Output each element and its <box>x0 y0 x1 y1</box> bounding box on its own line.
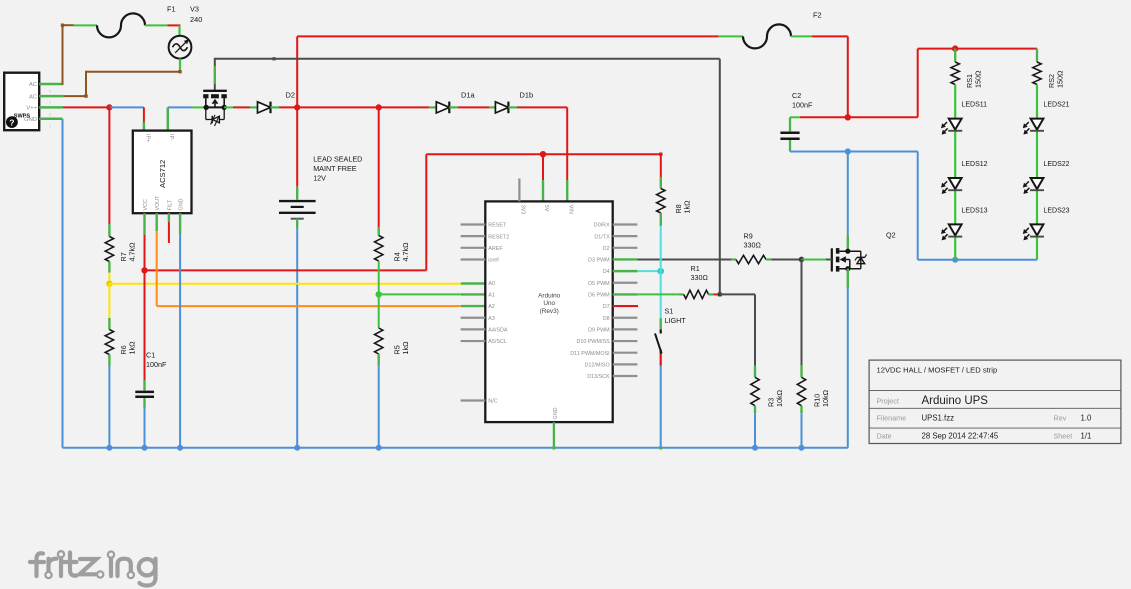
pin SWPS AC1 leg <box>39 83 62 86</box>
svg-text:4.7kΩ: 4.7kΩ <box>127 242 136 262</box>
svg-text:IP+: IP+ <box>145 134 151 142</box>
svg-text:UPS1.fzz: UPS1.fzz <box>922 414 955 423</box>
node RS1 top <box>952 45 958 51</box>
fritzing logo <box>30 551 156 585</box>
wire D4 cyan <box>637 270 660 272</box>
resistor R3 10k <box>751 377 784 407</box>
node bus C1 <box>142 445 148 451</box>
wire R7 to A0 node (yellow) <box>108 262 110 284</box>
svg-text:330Ω: 330Ω <box>691 273 709 282</box>
svg-text:3V3: 3V3 <box>520 205 526 215</box>
svg-text:D12/MISO: D12/MISO <box>585 362 610 368</box>
wire C1 to ground bus <box>143 398 145 448</box>
wire Q1 gate (gray) <box>215 57 720 294</box>
svg-text:?: ? <box>9 117 14 127</box>
svg-text:R1: R1 <box>691 264 700 273</box>
node bus ACS GND <box>177 445 183 451</box>
battery LEAD SEALED 12V <box>279 155 362 219</box>
svg-text:A1: A1 <box>488 293 495 299</box>
LED LEDS13 <box>941 208 988 241</box>
node bus battery <box>294 445 300 451</box>
svg-text:GND: GND <box>179 198 185 210</box>
unconnected right pins <box>613 225 638 377</box>
wire R8 bottom leg <box>660 213 662 226</box>
wire node to D1a <box>379 106 437 108</box>
wire Q1 to D2 <box>224 106 257 108</box>
svg-text:Filename: Filename <box>877 414 907 423</box>
svg-text:C1: C1 <box>146 351 155 360</box>
svg-text:Project: Project <box>877 396 899 405</box>
wire SWPS GND leg <box>39 118 62 121</box>
resistor R4 4.7k <box>375 236 410 262</box>
wire R9 to Q2 gate <box>766 258 802 260</box>
wire D6 to R1 (green) <box>637 293 683 295</box>
wire V3 bottom to AC2 (brown) <box>64 59 182 98</box>
svg-text:D11 PWM/MOSI: D11 PWM/MOSI <box>570 351 609 357</box>
wire top rail to fuse F2 (red) <box>297 36 743 107</box>
node Q2 gate / R10 <box>799 257 805 263</box>
svg-text:28 Sep 2014 22:47:45: 28 Sep 2014 22:47:45 <box>922 431 999 440</box>
wire S1 to bus <box>660 354 662 448</box>
wire R5 to ground bus <box>378 354 380 448</box>
wire LED return rail <box>918 152 1037 260</box>
node A1 divider <box>376 291 382 297</box>
pin D7 red stub <box>613 305 638 307</box>
svg-text:Arduino: Arduino <box>538 293 560 300</box>
node LED return / Q2 drain <box>845 148 851 154</box>
svg-text:MAINT FREE: MAINT FREE <box>313 164 357 173</box>
svg-text:D0/RX: D0/RX <box>594 223 610 229</box>
svg-text:LEAD SEALED: LEAD SEALED <box>313 155 362 164</box>
svg-text:1.0: 1.0 <box>1081 414 1093 423</box>
wire node to R6 <box>108 284 110 330</box>
wire Q2 drain <box>847 152 849 252</box>
node bus R10 <box>799 445 805 451</box>
svg-text:A2: A2 <box>488 304 495 310</box>
pin D6 PWM leg <box>613 293 638 295</box>
power supply SWPS (unknown part) <box>4 73 52 131</box>
diode D1a <box>436 91 475 114</box>
svg-text:LEDS22: LEDS22 <box>1044 161 1070 168</box>
svg-text:D9 PWM: D9 PWM <box>588 327 610 333</box>
capacitor C2 100nF <box>780 91 813 139</box>
wire R10 to bus <box>800 406 802 448</box>
svg-text:A0: A0 <box>488 281 495 287</box>
svg-text:RESET: RESET <box>488 223 507 229</box>
svg-text:330Ω: 330Ω <box>744 241 762 250</box>
svg-text:10kΩ: 10kΩ <box>821 389 830 407</box>
wire VCC net to 5V and R8 (red) <box>145 153 663 271</box>
svg-text:N/C: N/C <box>488 399 497 405</box>
svg-text:AC: AC <box>29 94 37 100</box>
LED LEDS21 <box>1023 85 1070 260</box>
node battery top rail <box>294 104 300 110</box>
svg-text:R9: R9 <box>744 231 753 240</box>
wire Q2 source to bus <box>847 269 849 448</box>
svg-text:GND: GND <box>553 407 559 419</box>
svg-text:100nF: 100nF <box>792 101 813 110</box>
svg-text:1kΩ: 1kΩ <box>682 200 691 214</box>
svg-text:4.7kΩ: 4.7kΩ <box>401 242 410 262</box>
svg-text:1kΩ: 1kΩ <box>401 341 410 355</box>
svg-text:V3: V3 <box>190 5 199 14</box>
svg-text:F1: F1 <box>167 5 176 14</box>
wire R1 to gate node (red) <box>709 293 720 295</box>
wire rail node down to R4 <box>378 107 380 235</box>
svg-text:D13/SCK: D13/SCK <box>587 374 610 380</box>
wire R8 top (red) <box>660 154 662 188</box>
svg-text:Arduino UPS: Arduino UPS <box>922 395 989 407</box>
wire C2 bottom to LED return (blue) <box>790 140 918 152</box>
wire R4 to A1 node (green) <box>378 261 380 328</box>
svg-text:AC: AC <box>29 82 37 88</box>
wire R3 to bus <box>754 406 756 448</box>
svg-text:D4: D4 <box>603 269 610 275</box>
svg-text:AREF: AREF <box>488 246 503 252</box>
LED LEDS12 <box>941 161 988 194</box>
node LED supply rail <box>845 114 851 120</box>
resistor R6 1k <box>105 330 136 355</box>
LED LEDS22 <box>1023 161 1070 194</box>
pin ACS712 FILT stub <box>168 213 170 243</box>
svg-text:ACS712: ACS712 <box>158 160 167 188</box>
svg-text:LEDS23: LEDS23 <box>1044 208 1070 215</box>
svg-text:5V: 5V <box>543 205 549 212</box>
wire VCC to C1 <box>144 270 146 390</box>
title block <box>869 360 1121 443</box>
resistor R9 330 <box>736 231 766 263</box>
pin ACS712 VOUT to A2 (orange) <box>157 213 486 306</box>
svg-text:LEDS21: LEDS21 <box>1044 102 1070 109</box>
IC ACS712 current sensor <box>133 131 192 214</box>
node bus R6 <box>106 445 112 451</box>
wire ground bus <box>63 119 848 448</box>
pin ACS712 VCC leg <box>143 213 145 234</box>
LED LEDS23 <box>1023 208 1070 241</box>
LED LEDS11 <box>941 85 987 260</box>
svg-text:D5 PWM: D5 PWM <box>588 281 610 287</box>
node VCC net <box>141 267 147 273</box>
resistor R10 10k <box>797 377 830 407</box>
svg-text:V++: V++ <box>26 106 37 112</box>
svg-text:1kΩ: 1kΩ <box>127 341 136 355</box>
resistor R5 1k <box>375 328 410 355</box>
svg-text:12VDC HALL / MOSFET / LED stri: 12VDC HALL / MOSFET / LED strip <box>877 366 998 375</box>
node Q1 gate / R3 <box>718 292 722 296</box>
svg-text:D7: D7 <box>603 304 610 310</box>
wire node to R3 <box>720 294 755 377</box>
resistor R1 330 <box>684 264 709 299</box>
svg-text:LEDS11: LEDS11 <box>962 102 988 109</box>
svg-text:D2: D2 <box>286 91 295 100</box>
pin SWPS V++ leg <box>39 106 63 109</box>
resistor RS2 150 <box>1033 49 1065 88</box>
resistor R7 4.7k <box>105 237 136 262</box>
svg-text:LEDS13: LEDS13 <box>962 208 988 215</box>
unconnected left pins <box>461 225 486 401</box>
svg-text:150Ω: 150Ω <box>974 70 983 88</box>
node Q1 drain <box>204 105 209 110</box>
node R4 top <box>376 104 382 110</box>
wire VCC red down <box>144 235 146 271</box>
wire D2 cathode to node <box>271 106 297 108</box>
pin SWPS AC2 leg <box>39 95 64 98</box>
svg-text:10kΩ: 10kΩ <box>775 389 784 407</box>
node bus R3 <box>752 445 758 451</box>
wire LED supply rail riser <box>918 49 1037 118</box>
svg-text:A3: A3 <box>488 316 495 322</box>
pin GND leg to bus <box>553 422 555 448</box>
svg-text:VCC: VCC <box>143 199 149 210</box>
pin ACS712 GND to bus <box>179 213 181 448</box>
svg-text:A4/SDA: A4/SDA <box>488 327 508 333</box>
svg-text:Rev: Rev <box>1054 414 1067 423</box>
svg-text:D10 PWM/SS: D10 PWM/SS <box>576 339 610 345</box>
svg-text:RESET2: RESET2 <box>488 234 509 240</box>
svg-text:D1a: D1a <box>461 91 475 100</box>
svg-text:D1/TX: D1/TX <box>594 234 610 240</box>
resistor RS1 150 <box>951 49 983 88</box>
svg-text:C2: C2 <box>792 91 801 100</box>
wire rail to R4 node <box>297 106 379 108</box>
svg-text:150Ω: 150Ω <box>1055 70 1064 88</box>
wire D1b to VIN <box>508 107 567 201</box>
capacitor C1 100nF <box>135 351 167 397</box>
wire battery to ground bus <box>296 219 298 448</box>
svg-text:VOUT: VOUT <box>155 195 161 211</box>
node bus S1 tick <box>659 446 663 450</box>
node LED1 column bottom <box>952 257 958 263</box>
wire F2 to LED rail <box>791 36 848 117</box>
wire A1 green <box>379 293 486 295</box>
svg-text:ioref: ioref <box>488 258 499 264</box>
svg-text:IP-: IP- <box>168 134 174 141</box>
svg-text:D1b: D1b <box>520 91 534 100</box>
node D4 / S1 / R8 <box>657 268 664 275</box>
svg-text:Sheet: Sheet <box>1054 431 1073 440</box>
svg-text:1/1: 1/1 <box>1081 431 1092 440</box>
node V++ / R7 <box>106 104 112 110</box>
pin D3 PWM leg <box>613 258 638 260</box>
IC U1 Arduino Uno (Rev3) <box>485 201 612 422</box>
pin 3V3 stub <box>518 179 520 202</box>
svg-text:F2: F2 <box>813 11 822 20</box>
wire yellow to Arduino A0 <box>109 283 485 285</box>
switch S1 LIGHT <box>655 307 686 354</box>
svg-text:A5/SCL: A5/SCL <box>488 339 507 345</box>
svg-text:Q2: Q2 <box>886 231 896 240</box>
transistor Q2 N-MOSFET <box>826 231 896 272</box>
node bus Arduino GND tick <box>552 446 556 450</box>
wire C2 top to rail <box>790 117 918 131</box>
wire D1a to D1b <box>449 106 495 108</box>
svg-text:FILT: FILT <box>167 199 173 210</box>
wire V++ to ACS712 IP+ (blue) <box>109 106 143 108</box>
resistor R8 1k <box>657 189 692 214</box>
wire cyan R8 to S1 <box>660 226 662 318</box>
svg-text:D8: D8 <box>603 316 610 322</box>
AC source V3 240 <box>169 5 203 59</box>
diode D1b <box>495 91 533 114</box>
svg-text:S1: S1 <box>665 307 674 316</box>
pin D4 leg <box>613 270 638 272</box>
fuse F1 <box>97 5 176 38</box>
svg-text:D2: D2 <box>603 246 610 252</box>
wire D3 to R9 (gray) <box>637 258 736 260</box>
svg-text:Uno: Uno <box>543 300 555 307</box>
node Q1 source <box>222 105 227 110</box>
svg-text:D6 PWM: D6 PWM <box>588 293 610 299</box>
svg-text:Date: Date <box>877 431 892 440</box>
wire V++ red <box>63 106 109 108</box>
wire V++ node down to R7 <box>108 107 110 236</box>
svg-text:(Rev3): (Rev3) <box>540 308 559 315</box>
wire F1 to V3 <box>145 25 181 35</box>
transistor Q1 P-MOSFET <box>203 58 227 126</box>
wire ACS712 IP- to MOSFET Q1 (blue) <box>168 107 206 130</box>
wire to fuse F1 (green) <box>74 24 98 26</box>
svg-text:12V: 12V <box>313 174 326 183</box>
wire rail to battery <box>296 107 298 199</box>
wire R6 to ground bus <box>108 355 110 448</box>
svg-text:100nF: 100nF <box>146 360 167 369</box>
diode D2 <box>258 91 295 114</box>
node 5V tap <box>540 151 546 201</box>
svg-text:LIGHT: LIGHT <box>665 316 687 325</box>
svg-text:LEDS12: LEDS12 <box>962 161 988 168</box>
wire AC1 brown <box>61 24 74 86</box>
wire IP+ drop <box>143 107 145 130</box>
svg-text:240: 240 <box>190 15 202 24</box>
wire node to R10 <box>801 259 803 377</box>
fuse F2 <box>743 11 822 49</box>
svg-text:VIN: VIN <box>567 205 573 214</box>
node bus R5 <box>376 445 382 451</box>
node A0 divider <box>106 281 112 287</box>
svg-text:D3 PWM: D3 PWM <box>588 258 610 264</box>
